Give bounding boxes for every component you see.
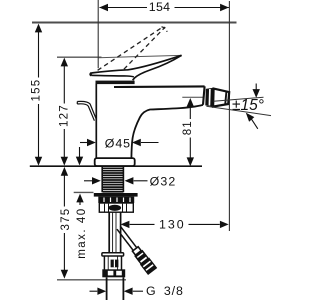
extension line top height (overall height ref line) [32,22,237,24]
extension line lever tip vertical [97,0,99,68]
G3/8 tailpiece tube [106,277,108,300]
dimension 81 [189,106,191,160]
base plinth [95,158,135,166]
dimension ±15° annotation [255,84,257,90]
lever handle (rest position) [91,55,181,73]
extension line hose end level [57,279,126,281]
extension line handle rest height [57,56,102,58]
extension line to lever tip [98,55,181,57]
svg-text:Ø32: Ø32 [150,174,177,188]
flexible hose [120,226,139,251]
dimension 154 [100,7,229,9]
spout underside and body right profile [131,105,203,158]
body left edge [95,84,97,159]
extension line max mounting depth [74,191,94,193]
tube mid section [103,256,105,270]
dimension 130 [130,223,220,225]
hose end fitting [131,245,158,275]
dimension Ø45 [80,142,159,144]
pop-up rod hook [77,101,96,119]
dimension 375 [63,175,65,271]
G3/8 coupling block [102,269,125,277]
extension line spout end vertical [228,1,230,231]
dimension 127 [63,66,65,158]
svg-text:130: 130 [159,217,186,231]
aerator collar [206,89,213,107]
aerator swivel axis line [214,97,264,101]
aerator swivel range line [206,106,271,115]
svg-text:G3/8: G3/8 [146,284,184,298]
aerator body (tilt ±15°) [213,89,229,107]
dimension G 3/8 [90,290,144,292]
svg-text:155: 155 [31,79,43,102]
mounting nut [98,197,134,203]
cartridge ring (dark band) [96,81,135,85]
svg-text:Ø45: Ø45 [105,136,131,150]
dimension max. 40 [79,147,81,158]
spout end face [203,86,205,105]
svg-text:127: 127 [59,104,71,127]
nut lower block [99,203,133,212]
svg-text:154: 154 [149,0,171,14]
counter / mounting surface line [30,165,202,167]
threaded shank [101,167,103,193]
supply tube with pop-up rod [108,212,110,253]
svg-text:max. 40: max. 40 [76,207,88,258]
svg-text:81: 81 [182,120,194,135]
lever raised position (dashed) [98,28,162,71]
dimension Ø32 [84,180,148,182]
tube collar [102,253,124,256]
dimension 155 [38,32,40,158]
svg-text:375: 375 [60,208,72,231]
spout top edge [114,85,205,88]
extension line aerator outlet level [182,96,203,98]
mounting washer [94,193,138,197]
